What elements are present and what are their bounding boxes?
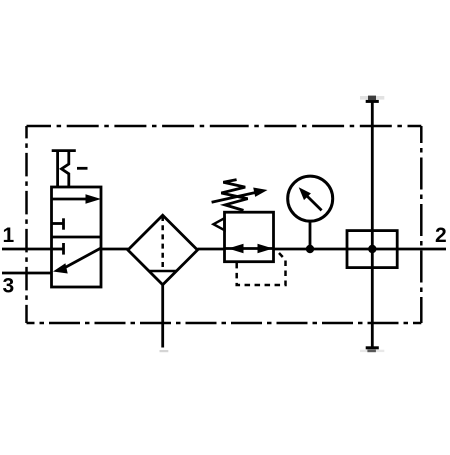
- bottom port plug (grey): [360, 350, 384, 353]
- drain outlet tick (grey): [160, 350, 169, 352]
- regulator flow line with double arrowheads: [225, 244, 274, 254]
- wire filter to regulator: [198, 248, 225, 251]
- bottom port end bar: [366, 346, 379, 349]
- valve flow arrow (top chamber): [52, 194, 102, 204]
- gauge stem: [309, 220, 312, 249]
- filter drain line: [161, 285, 164, 348]
- port 3 wire: [2, 272, 52, 275]
- blocked port T (bottom chamber): [52, 243, 64, 255]
- gauge needle: [299, 187, 322, 210]
- branch vertical line: [371, 101, 374, 347]
- regulator relief triangle: [214, 218, 225, 230]
- svg-text:2: 2: [435, 224, 447, 247]
- detent actuator on valve: [52, 151, 88, 187]
- top port plug (grey): [360, 96, 384, 101]
- port 1 wire: [2, 248, 52, 251]
- valve V1 body (3/2-way on-off valve): [52, 187, 102, 287]
- filter separator chord: [150, 270, 177, 273]
- blocked port T (top chamber): [52, 218, 64, 229]
- svg-text:3: 3: [3, 275, 15, 298]
- pressure gauge G1: [288, 176, 333, 221]
- wire valve to filter: [101, 248, 128, 251]
- regulator adjustment arrow: [212, 188, 268, 203]
- enclosure border (dash-dot): [27, 126, 422, 323]
- junction dot (gauge tap): [306, 245, 314, 253]
- wire branch to port 2: [397, 248, 446, 251]
- regulator spring (adjustable): [221, 180, 247, 211]
- top port end bar: [366, 100, 379, 103]
- regulator pilot line (dashed feedback): [237, 253, 286, 285]
- junction dot (branch): [368, 245, 376, 253]
- filter dashed element line: [161, 216, 164, 271]
- branch block B1: [347, 231, 397, 268]
- svg-text:1: 1: [3, 224, 15, 247]
- valve exhaust arrow (bottom chamber, 2 to 3): [53, 248, 101, 274]
- filter F1 (diamond): [128, 215, 198, 285]
- wire regulator to branch block: [274, 248, 398, 251]
- regulator R1 body: [225, 212, 274, 262]
